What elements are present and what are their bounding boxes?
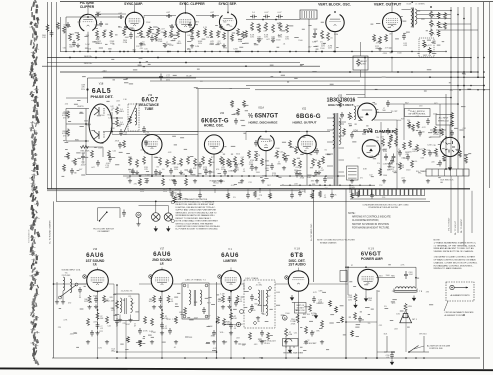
capacitor discharge 2 xyxy=(270,163,274,170)
svg-text:220: 220 xyxy=(382,197,385,199)
discriminator transformer T5 shield xyxy=(244,280,275,328)
svg-text:.047: .047 xyxy=(65,132,69,134)
resistor horiz out cluster 0 xyxy=(293,158,296,167)
svg-text:CLIPPER: CLIPPER xyxy=(80,5,95,9)
speaker lead 2 xyxy=(406,312,408,314)
wire xyxy=(403,104,405,140)
resistor gapfill xyxy=(459,150,462,158)
resistor mid extra xyxy=(423,148,426,156)
svg-text:220: 220 xyxy=(431,161,434,163)
resistor right mid 2 xyxy=(441,128,444,136)
fil wire xyxy=(450,7,452,169)
junction xyxy=(315,51,316,52)
junction xyxy=(369,185,370,186)
junction xyxy=(391,51,392,52)
svg-text:120K: 120K xyxy=(433,113,438,115)
chassis ground T8 xyxy=(412,296,415,301)
svg-text:.033: .033 xyxy=(116,100,120,102)
resistor gapfill bottom xyxy=(341,316,344,323)
junction xyxy=(470,85,472,87)
capacitor clipper xyxy=(72,40,76,47)
ground mid row xyxy=(426,179,430,183)
capacitor horiz osc xyxy=(204,169,208,176)
coupling capacitor xyxy=(95,13,101,17)
wire xyxy=(346,94,365,96)
ground xyxy=(190,44,194,48)
svg-text:C42: C42 xyxy=(187,35,190,37)
junction xyxy=(275,19,277,21)
power socket pins xyxy=(445,141,455,153)
terminal block 3 xyxy=(360,189,363,195)
svg-text:470: 470 xyxy=(211,172,214,174)
resistor reactance cluster 2 xyxy=(143,156,146,165)
svg-text:CONTROL R40: CONTROL R40 xyxy=(429,348,443,350)
fil strip divider xyxy=(431,169,433,176)
tube V19s 6V6GT xyxy=(358,269,378,289)
top band label marks 2 xyxy=(254,22,339,49)
top border line xyxy=(60,1,493,3)
ground xyxy=(136,222,140,226)
capacitor AGC xyxy=(115,318,119,325)
resistor cathode limiter xyxy=(222,295,225,303)
resistor R88 xyxy=(67,129,70,137)
V17 6AU6 electrodes xyxy=(155,277,168,285)
vert lin control xyxy=(423,41,426,48)
resistor horiz out cluster 3 xyxy=(318,160,321,169)
junction xyxy=(301,175,303,177)
junction xyxy=(483,85,485,87)
resistor mid extra xyxy=(91,150,94,158)
6T8 top lead xyxy=(298,268,300,271)
junction xyxy=(211,51,213,53)
resistor horiz out cluster 2 xyxy=(312,158,315,167)
fil strip divider xyxy=(456,169,458,176)
svg-text:120K: 120K xyxy=(238,164,243,166)
resistor integrator R1 xyxy=(258,24,261,33)
capacitor reactance cluster xyxy=(131,169,135,176)
capacitor boost xyxy=(323,176,327,183)
capacitor hanger xyxy=(198,193,202,199)
junction xyxy=(337,175,339,177)
wire xyxy=(230,330,232,358)
resistor top extra xyxy=(231,34,234,42)
capacitor mid extra xyxy=(386,128,390,135)
wire xyxy=(111,112,113,134)
svg-text:.033: .033 xyxy=(295,167,299,169)
svg-text:560: 560 xyxy=(254,304,257,306)
junction xyxy=(345,321,347,323)
T5 mounting diamond xyxy=(248,286,252,290)
svg-text:R72: R72 xyxy=(392,303,395,305)
junction xyxy=(429,76,431,78)
svg-text:CONT.: CONT. xyxy=(361,63,367,65)
svg-text:1500: 1500 xyxy=(397,120,401,122)
grid cap terminal xyxy=(149,275,152,278)
capacitor sound extra xyxy=(310,330,314,337)
resistor cathode V17 xyxy=(153,295,156,303)
svg-text:.01: .01 xyxy=(330,37,333,39)
resistor gapfill bottom xyxy=(329,300,332,307)
junction xyxy=(99,220,101,222)
svg-text:21.25 MC T3: 21.25 MC T3 xyxy=(121,291,133,293)
grid cap terminal xyxy=(83,275,86,278)
resistor top extra xyxy=(155,34,158,42)
junction bottom bus xyxy=(423,357,425,359)
svg-text:.0047: .0047 xyxy=(418,149,423,151)
svg-text:VERT. LIN.: VERT. LIN. xyxy=(423,55,432,57)
terminal block 4 xyxy=(364,189,367,195)
T6 winding xyxy=(63,277,65,291)
junction xyxy=(185,12,187,14)
flyback transformer core xyxy=(335,113,338,186)
svg-text:B+ POWER SOCKET TO ENERGY GROU: B+ POWER SOCKET TO ENERGY GROUND. xyxy=(176,229,219,231)
T3 secondary xyxy=(131,298,133,312)
resistor integrator R0 xyxy=(251,22,254,31)
ground xyxy=(152,305,156,309)
capacitor top extra xyxy=(188,22,192,28)
HV filament winding xyxy=(354,106,356,120)
svg-text:470: 470 xyxy=(356,105,359,107)
svg-text:470K: 470K xyxy=(110,128,115,130)
tube V25 1B3GT xyxy=(358,103,377,121)
svg-text:5%: 5% xyxy=(376,137,379,139)
svg-text:.047: .047 xyxy=(161,29,165,31)
wire xyxy=(345,189,347,358)
resistor mid extra xyxy=(295,146,298,154)
ground mid row xyxy=(145,179,149,183)
wire to height control xyxy=(360,42,362,56)
svg-text:1500: 1500 xyxy=(383,175,387,177)
svg-text:R72: R72 xyxy=(99,331,102,333)
resistor sync amp R1 xyxy=(140,30,143,38)
svg-text:.033: .033 xyxy=(377,41,381,43)
junction xyxy=(321,51,323,53)
svg-text:.033: .033 xyxy=(168,152,172,154)
svg-text:.033: .033 xyxy=(420,157,424,159)
ground mid row xyxy=(128,179,132,183)
junction xyxy=(411,51,412,52)
capacitor reactance cluster xyxy=(189,169,193,176)
capacitor C49 xyxy=(312,296,316,303)
pilot terminal xyxy=(136,212,141,217)
resistor reactance cluster 4 xyxy=(166,159,169,168)
svg-text:470: 470 xyxy=(134,183,137,185)
svg-text:R67: R67 xyxy=(131,303,134,305)
svg-text:C42: C42 xyxy=(107,326,110,328)
svg-text:R67: R67 xyxy=(262,314,265,316)
chassis ground jumper xyxy=(288,348,291,353)
T5 winding hatch xyxy=(306,11,308,18)
resistor sync amp R2 xyxy=(147,30,150,38)
resistor damper column xyxy=(390,134,393,142)
svg-text:560: 560 xyxy=(63,47,66,49)
capacitor mid extra xyxy=(315,148,319,155)
svg-text:10%: 10% xyxy=(396,313,400,315)
ground sound row xyxy=(86,340,90,344)
capacitor mid extra xyxy=(198,162,202,169)
junction xyxy=(65,51,66,52)
yoke socket pin xyxy=(348,174,357,176)
svg-text:120K: 120K xyxy=(177,164,182,166)
svg-text:CIRCLED ALPHABETS INDICATE: CIRCLED ALPHABETS INDICATE xyxy=(445,311,475,314)
T5 primary xyxy=(258,290,260,304)
ground sound row xyxy=(304,340,308,344)
bus band label marks 2 xyxy=(270,65,471,91)
junction xyxy=(162,175,164,177)
terminal block 16 xyxy=(413,189,416,195)
svg-text:ARROWS AT CONTROLS INDICATE: ARROWS AT CONTROLS INDICATE xyxy=(352,216,391,219)
ground sound row xyxy=(138,340,142,344)
resistor clipper R1 xyxy=(69,33,72,41)
transformer T7 vert output xyxy=(412,8,413,28)
svg-text:.047: .047 xyxy=(91,167,95,169)
svg-text:1500: 1500 xyxy=(276,40,280,42)
junction xyxy=(111,131,113,133)
hanger wire xyxy=(179,189,181,193)
junction xyxy=(391,351,393,353)
junction xyxy=(325,175,327,177)
svg-text:.01: .01 xyxy=(174,347,177,349)
hanger wire xyxy=(371,189,373,193)
vert linearity pot 2 wiper xyxy=(432,33,434,35)
chassis ground audio xyxy=(314,313,317,318)
flyback tap wire xyxy=(327,177,333,179)
svg-text:6BG6-G: 6BG6-G xyxy=(296,113,321,120)
svg-text:1500: 1500 xyxy=(285,313,289,315)
junction xyxy=(241,175,243,177)
V18 diode plates xyxy=(94,107,104,139)
svg-text:1500: 1500 xyxy=(236,153,240,155)
tube V15 vert output xyxy=(383,13,402,32)
T3 core xyxy=(125,298,126,314)
junction xyxy=(53,283,55,285)
svg-text:DISC. TRANS.: DISC. TRANS. xyxy=(245,277,259,280)
wire xyxy=(102,147,104,157)
junction xyxy=(286,277,287,278)
transformer T3 box xyxy=(114,294,139,321)
audio band label marks xyxy=(251,291,330,351)
capacitor lower row xyxy=(173,179,177,186)
svg-text:120K: 120K xyxy=(427,144,432,146)
V16 plate wire xyxy=(108,283,114,285)
wire xyxy=(65,109,67,142)
junction xyxy=(450,71,452,73)
ground xyxy=(135,171,139,175)
gapfill marks phase det lower xyxy=(62,149,89,176)
svg-text:.0047: .0047 xyxy=(70,333,75,335)
capacitor sound extra xyxy=(90,330,94,337)
ground sound row xyxy=(212,340,216,344)
bus wire xyxy=(246,85,484,87)
svg-text:1.0M: 1.0M xyxy=(334,34,339,36)
wire xyxy=(66,97,88,99)
junction xyxy=(445,51,446,52)
junction xyxy=(141,51,143,53)
junction xyxy=(351,51,352,52)
V13 sync sep electrodes xyxy=(223,19,233,26)
junction xyxy=(321,51,323,53)
svg-text:1500: 1500 xyxy=(397,53,401,55)
tube V24 5V4 xyxy=(362,140,380,158)
flyback winding fill xyxy=(333,113,338,186)
resistor mid extra xyxy=(289,140,292,148)
junction xyxy=(123,51,125,53)
capacitor vert int 2 xyxy=(276,15,283,19)
wire into T4 xyxy=(187,284,189,288)
svg-text:SOUND INPUT COIL: SOUND INPUT COIL xyxy=(62,270,82,272)
resistor mid extra xyxy=(416,144,419,152)
pilot switch contact xyxy=(100,213,107,221)
junction xyxy=(127,51,128,52)
svg-text:CONDENSER SHOWN ELECTROLYTIC C: CONDENSER SHOWN ELECTROLYTIC CAPT. USED xyxy=(362,203,409,206)
resistor sync amp R3 xyxy=(157,27,160,35)
pilot lamp lead xyxy=(155,201,157,212)
bottom border line xyxy=(0,368,493,370)
terminal block 5 xyxy=(368,189,371,195)
resistor screen V17 xyxy=(167,295,170,303)
resistor ladder 1 xyxy=(437,21,440,28)
junction xyxy=(219,276,220,277)
svg-text:.01: .01 xyxy=(192,38,195,40)
afc wire xyxy=(112,134,198,136)
resistor hanger xyxy=(269,193,272,200)
junction xyxy=(227,175,229,177)
right border line xyxy=(483,2,485,369)
svg-text:BLUE: BLUE xyxy=(407,3,412,5)
resistor sound extra xyxy=(354,312,357,320)
svg-text:R67: R67 xyxy=(267,185,270,187)
junction xyxy=(319,185,320,186)
junction xyxy=(459,89,461,91)
socket assy box xyxy=(295,303,307,314)
capacitor sound extra xyxy=(138,328,142,335)
resistor lower row 1 xyxy=(162,178,165,186)
svg-text:ALIGNMENT POINTS.: ALIGNMENT POINTS. xyxy=(445,314,465,317)
junction xyxy=(364,57,366,59)
svg-text:PILOT LIGHT SWITCH: PILOT LIGHT SWITCH xyxy=(93,228,114,230)
resistor vert osc grid 2 xyxy=(327,32,330,41)
resistor reactance cluster 3 xyxy=(159,157,162,166)
tube V12 sync clipper xyxy=(176,13,195,32)
svg-text:.047: .047 xyxy=(308,47,312,49)
svg-text:.01: .01 xyxy=(407,110,410,112)
horiz osc coil slug xyxy=(124,103,137,132)
terminal block 12 xyxy=(397,189,400,195)
resistor top extra xyxy=(245,30,248,38)
svg-text:.0047: .0047 xyxy=(95,12,101,14)
junction xyxy=(109,51,110,52)
resistor clipper R2 xyxy=(77,33,80,41)
section divider line xyxy=(47,188,470,190)
resistor damper cluster 1 xyxy=(388,140,391,149)
svg-text:C31: C31 xyxy=(463,128,466,130)
junction xyxy=(289,175,291,177)
phase det label marks xyxy=(63,101,123,165)
svg-text:.01: .01 xyxy=(281,184,284,186)
resistor vert out cathode 1 xyxy=(379,36,382,44)
capacitor gapfill xyxy=(438,160,442,167)
ground xyxy=(128,318,132,322)
resistor R90 xyxy=(348,112,351,120)
terminal block 1 xyxy=(352,189,355,195)
capacitor sound extra xyxy=(168,328,172,335)
svg-text:TO SOUND I.F.: TO SOUND I.F. xyxy=(29,229,31,243)
V18s 6T8 electrodes xyxy=(292,278,304,285)
resistor integrator R4 xyxy=(279,22,282,31)
resistor damper column xyxy=(395,128,398,136)
B+ to sound chassis wire xyxy=(53,201,55,358)
resistor reactance cluster 8 xyxy=(194,158,197,167)
svg-text:SYNC. SEP.: SYNC. SEP. xyxy=(218,2,236,6)
junction xyxy=(185,62,187,64)
capacitor mid extra xyxy=(144,140,148,147)
wire xyxy=(85,147,87,175)
wire phase det vertical xyxy=(85,109,87,148)
jumper socket pins xyxy=(286,346,294,348)
ground xyxy=(95,331,99,335)
resistor mid extra xyxy=(411,160,414,168)
resistor damper cluster 0 xyxy=(382,138,385,147)
terminal block 7 xyxy=(376,189,379,195)
junction xyxy=(219,51,220,52)
wire boost rail xyxy=(380,122,382,176)
svg-text:470: 470 xyxy=(68,303,71,305)
resistor horiz out cluster 1 xyxy=(299,160,302,169)
HV output wire xyxy=(376,112,392,114)
svg-text:1.0M: 1.0M xyxy=(276,292,281,294)
svg-text:.033: .033 xyxy=(77,22,81,24)
V11 sync amp electrodes xyxy=(129,18,140,26)
vert controls box xyxy=(419,38,434,57)
svg-text:.047: .047 xyxy=(266,39,270,41)
junction xyxy=(257,51,258,52)
resistor sound extra xyxy=(217,316,220,324)
integrator wire xyxy=(246,19,300,21)
sound band label marks xyxy=(59,286,249,350)
junction xyxy=(445,168,447,170)
svg-text:RESULT TO RECEIVER. SEE PAGE 2: RESULT TO RECEIVER. SEE PAGE 2. xyxy=(176,217,212,220)
junction xyxy=(391,51,393,53)
plate lead xyxy=(134,2,136,12)
drive line xyxy=(246,131,330,133)
resistor plate V16 xyxy=(96,312,99,320)
svg-text:PLUG: PLUG xyxy=(264,343,270,345)
terminal block 17 xyxy=(417,189,420,195)
svg-text:470: 470 xyxy=(140,48,143,50)
resistor gapfill xyxy=(237,108,240,116)
svg-text:FIL. TO 6V6GT: FIL. TO 6V6GT xyxy=(449,217,451,231)
ground xyxy=(118,318,122,322)
svg-text:120K: 120K xyxy=(233,48,238,50)
flyback tap stub xyxy=(339,135,345,137)
junction xyxy=(339,185,340,186)
part of plug box xyxy=(340,271,347,282)
svg-text:½ 6SN7GT: ½ 6SN7GT xyxy=(248,113,278,120)
ground xyxy=(94,305,98,309)
notes paragraph block xyxy=(0,0,1,1)
ground xyxy=(254,166,258,170)
resistor mid extra xyxy=(379,168,382,176)
resistor discharge cluster 2 xyxy=(276,150,279,159)
capacitor C74 xyxy=(108,155,112,162)
resistor sync sep R0 xyxy=(217,30,220,38)
svg-text:SYNC. CLIPPER: SYNC. CLIPPER xyxy=(179,2,205,6)
pilot lamp lead 2 xyxy=(167,206,169,213)
wire phase det xyxy=(66,123,89,125)
capacitor damper 2 xyxy=(392,154,396,161)
resistor mid extra xyxy=(123,140,126,148)
svg-text:1500: 1500 xyxy=(275,148,279,150)
